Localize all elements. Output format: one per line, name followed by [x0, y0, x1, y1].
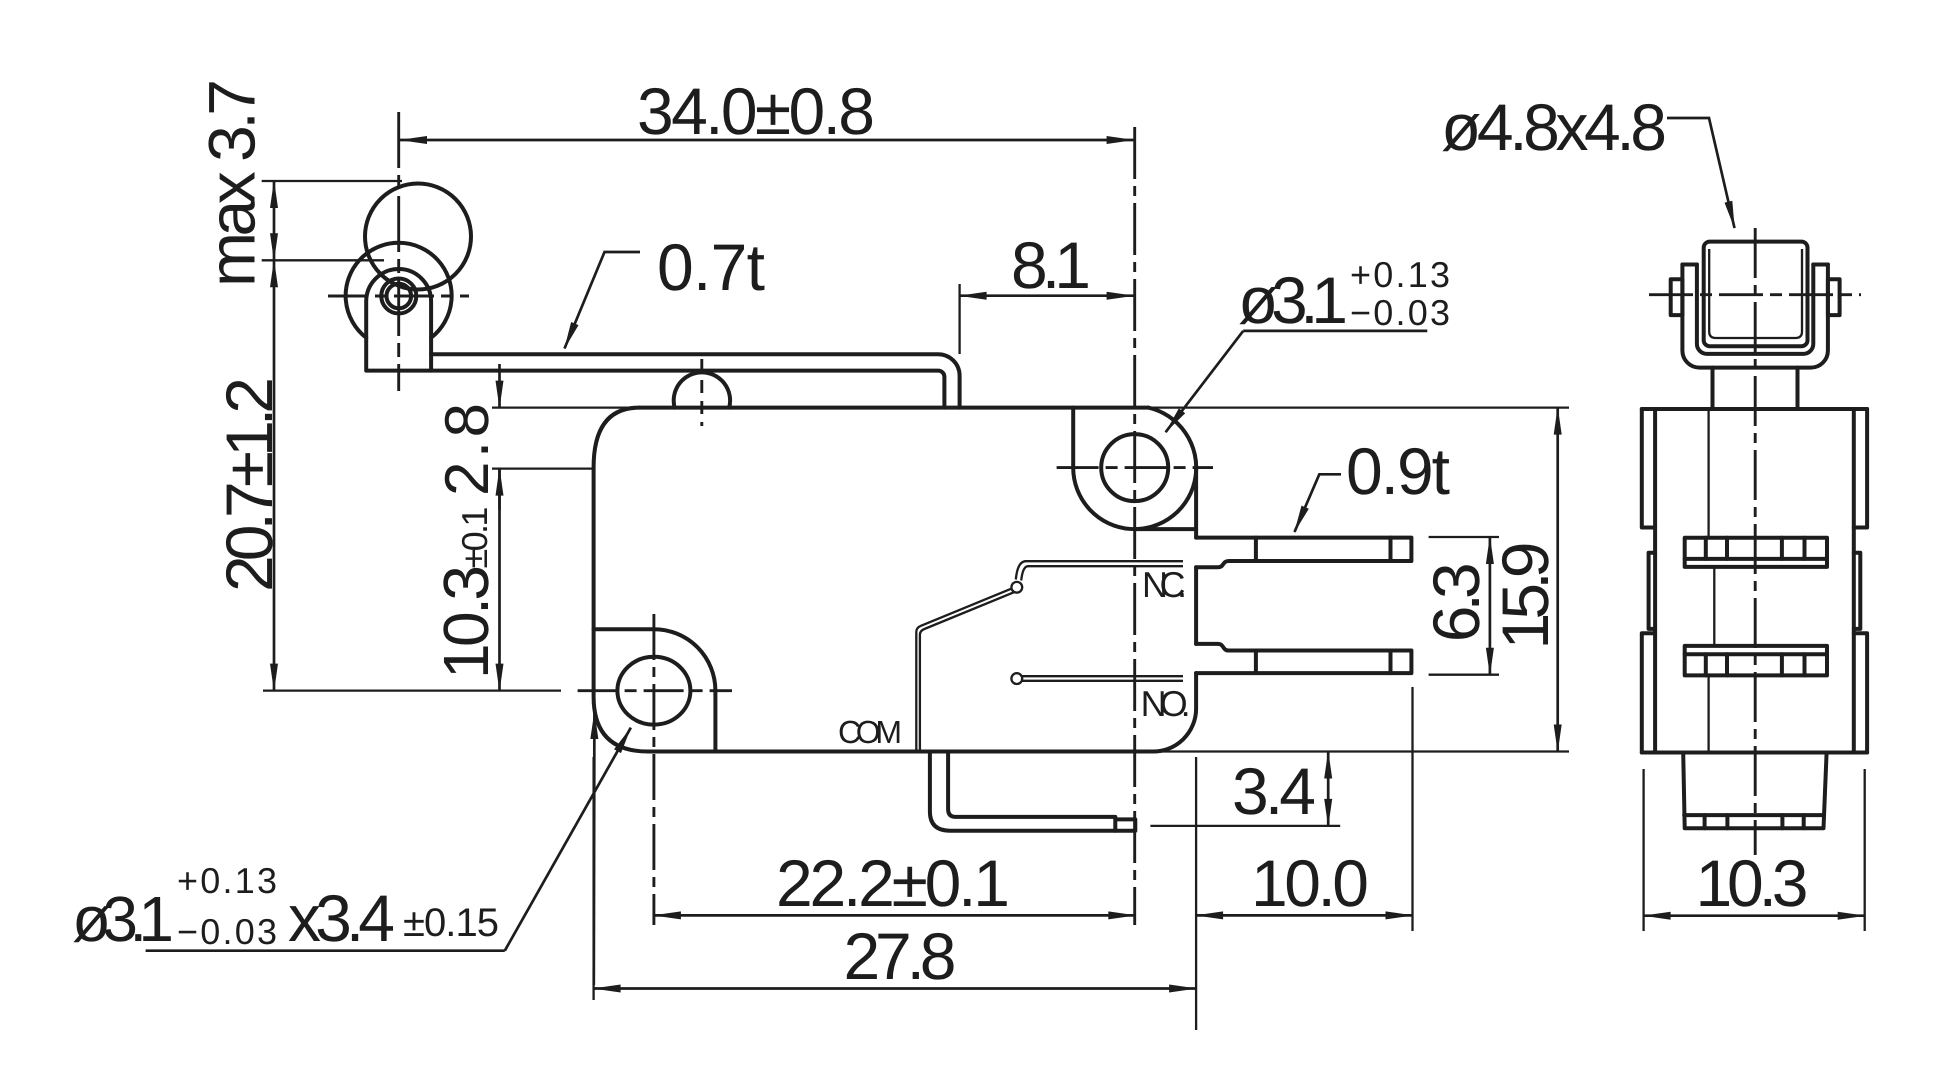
- end view right flange strip middle: [1854, 553, 1861, 629]
- bottom-left slot crosshair horizontal: [578, 689, 732, 692]
- bottom-left boss top line: [594, 627, 654, 631]
- roller pivot pin inner: [387, 284, 412, 309]
- moving spring double line: [916, 588, 1012, 751]
- label ø4.8x4.8 leader: [1667, 118, 1735, 228]
- end view NC terminal bar: [1685, 538, 1827, 559]
- dim 27.8 line: [594, 987, 1197, 990]
- dim 3.4 line: [1327, 752, 1330, 826]
- COM blade divider: [1113, 819, 1117, 830]
- end view NO terminal bar: [1685, 654, 1827, 675]
- svg-text:ø4.8x4.8: ø4.8x4.8: [1441, 90, 1667, 164]
- bottom-left boss right edge: [713, 691, 717, 752]
- dim 15.9 line: [1556, 408, 1559, 752]
- svg-text:3.4: 3.4: [1232, 754, 1316, 828]
- label ø3.1 top leader: [1166, 331, 1244, 432]
- svg-text:0.7t: 0.7t: [657, 230, 765, 304]
- NO terminal blade: [1196, 644, 1411, 673]
- end view axle pin left: [1671, 279, 1683, 315]
- body right edge extension for 27.8/10.0: [1195, 757, 1197, 1030]
- small arrow on left edge extension: [592, 712, 595, 985]
- lever fork bracket: [366, 269, 431, 371]
- hole centerline extension vertical (34.0 right / 8.1 right): [1133, 127, 1136, 925]
- top-right boss vertical edge: [1071, 408, 1075, 468]
- end view fork outer U: [1682, 265, 1828, 368]
- end view internal vertical above NC: [1707, 409, 1709, 538]
- svg-text:15.9: 15.9: [1488, 542, 1562, 650]
- end view COM dividers: [1705, 815, 1804, 828]
- dim 6.3 extension lines: [1429, 537, 1499, 675]
- body top edge line (with extensions): [492, 406, 1569, 408]
- dim 8.1 left extension: [958, 284, 960, 354]
- svg-text:+0.13: +0.13: [1350, 254, 1450, 295]
- bottom-left slot centerline vertical: [652, 614, 655, 925]
- svg-text:27.8: 27.8: [844, 919, 957, 993]
- roller pivot pin outer: [381, 279, 416, 314]
- label 0.7t leader: [565, 252, 641, 349]
- svg-text:x3.4: x3.4: [288, 881, 395, 955]
- svg-text:ø3.1: ø3.1: [1238, 263, 1348, 337]
- end view COM crimp line: [1684, 813, 1824, 817]
- end view body bottom edge: [1642, 751, 1867, 755]
- svg-text:−0.03: −0.03: [177, 911, 277, 952]
- dim 10.0 line: [1196, 914, 1412, 917]
- label 0.9t leader: [1295, 474, 1342, 532]
- NC contact point circle: [1011, 582, 1022, 593]
- roller raised-position circle: [365, 184, 471, 290]
- end view axle pin right: [1828, 279, 1840, 315]
- NO fixed contact strip inside body: [1022, 676, 1183, 681]
- top-right mounting hole: [1101, 434, 1168, 501]
- end view right flange strip lower: [1854, 633, 1867, 752]
- svg-text:8.1: 8.1: [1011, 228, 1091, 302]
- svg-text:ø3.1: ø3.1: [72, 883, 174, 955]
- end view roller body: [1704, 242, 1808, 347]
- end view NO bar upper lip: [1685, 646, 1827, 654]
- end view body top edge: [1642, 407, 1867, 411]
- svg-text:NC.: NC.: [1142, 564, 1187, 605]
- svg-text:NO.: NO.: [1141, 683, 1191, 724]
- svg-text:20.7±1.2: 20.7±1.2: [212, 377, 286, 592]
- end view internal vertical between bars: [1713, 567, 1715, 646]
- lever strip bottom edge with right bend tab inner: [431, 371, 944, 408]
- svg-text:34.0±0.8: 34.0±0.8: [637, 74, 875, 148]
- end view NC bar dividers: [1706, 538, 1805, 559]
- COM terminal L-blade: [930, 752, 1135, 831]
- dim 3.4 extension line: [1150, 825, 1340, 827]
- end view left flange strip upper: [1642, 409, 1655, 528]
- top-right hole boss arc: [1073, 408, 1196, 530]
- dim 20.7±1.2 line: [273, 260, 276, 690]
- body left edge: [594, 408, 648, 752]
- dim max 3.7 extension lines: [262, 181, 402, 260]
- end view fork arm top caps: [1682, 263, 1828, 267]
- dim 6.3 line: [1489, 537, 1492, 675]
- NC fixed contact strip inside body: [1016, 561, 1183, 579]
- dim 10.3 end view extensions: [1644, 769, 1865, 931]
- svg-text:10.0: 10.0: [1251, 846, 1369, 920]
- end view right flange strip upper: [1854, 409, 1867, 528]
- roller lower circle (side view, two side arcs around fork): [346, 243, 452, 338]
- plunger button dome: [674, 372, 730, 407]
- dim 20.7±1.2 bottom extension line: [263, 689, 561, 691]
- end view NC bar lower lip: [1685, 559, 1827, 567]
- body right edge segments: [1194, 468, 1198, 538]
- svg-text:6.3: 6.3: [1419, 562, 1493, 642]
- svg-text:±0.15: ±0.15: [403, 901, 499, 945]
- end view roller inner silhouette lines: [1709, 249, 1802, 338]
- end view lever neck: [1713, 368, 1798, 409]
- svg-text:+0.13: +0.13: [177, 860, 277, 901]
- dim 2.8 lower extension line: [492, 467, 594, 469]
- svg-text:10.3: 10.3: [1696, 846, 1809, 920]
- dim max 3.7 line: [273, 181, 276, 260]
- end view fork inner U: [1697, 265, 1813, 354]
- svg-text:max 3.7: max 3.7: [195, 79, 269, 287]
- end view roller crosshair horizontal: [1649, 293, 1861, 296]
- plunger centerline: [700, 359, 703, 426]
- svg-text:22.2±0.1: 22.2±0.1: [776, 846, 1010, 920]
- end view internal vertical below NO: [1707, 675, 1709, 752]
- label slot leader: [505, 728, 631, 951]
- end view COM terminal trapezoid: [1683, 753, 1826, 829]
- NC blade divider lines: [1256, 538, 1391, 561]
- body left edge extension for 27.8: [592, 757, 594, 1000]
- bottom-left slot hole: [617, 657, 690, 725]
- end view NO bar dividers: [1706, 654, 1805, 675]
- svg-text:2.8: 2.8: [433, 403, 502, 496]
- dim 8.1 line: [960, 294, 1134, 297]
- NO contact point circle: [1011, 673, 1022, 684]
- label ø3.1 top underline: [1243, 330, 1427, 333]
- end view left flange strip lower: [1642, 633, 1655, 752]
- svg-text:0.9t: 0.9t: [1346, 434, 1450, 508]
- NO blade divider lines: [1256, 651, 1391, 674]
- dim 10.0 right extension: [1411, 687, 1413, 931]
- body bottom edge line (with right extension): [648, 750, 1569, 752]
- svg-text:−0.03: −0.03: [1350, 292, 1450, 333]
- end view left flange strip middle: [1649, 553, 1656, 629]
- dim 10.3 end view line: [1644, 914, 1865, 917]
- label slot underline: [146, 949, 505, 952]
- lever strip top edge with right bend tab outer: [431, 354, 960, 407]
- top-right hole crosshair horizontal: [1057, 466, 1213, 469]
- bottom-left boss arc: [654, 629, 716, 691]
- svg-text:COM: COM: [838, 714, 902, 750]
- top-right boss bottom line: [1135, 527, 1196, 531]
- end view body side walls: [1655, 409, 1854, 753]
- dim 2.8 / 10.3 dimension line with arrows: [498, 364, 501, 408]
- roller centerline horizontal: [328, 295, 469, 298]
- roller centerline vertical: [397, 112, 400, 391]
- dim 22.2±0.1 line: [654, 914, 1135, 917]
- NC terminal blade: [1196, 538, 1411, 568]
- dim 34.0±0.8 line: [400, 139, 1134, 142]
- end view vertical centerline: [1754, 228, 1757, 855]
